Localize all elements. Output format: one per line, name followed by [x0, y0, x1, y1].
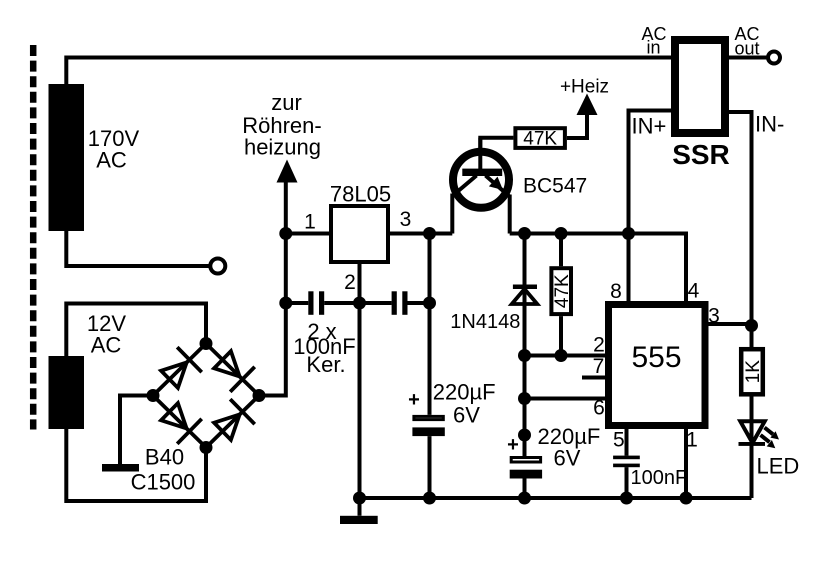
svg-text:+: +: [408, 389, 420, 411]
svg-text:3: 3: [400, 208, 412, 231]
svg-text:2: 2: [593, 334, 605, 357]
svg-text:6V: 6V: [554, 446, 581, 471]
svg-text:LED: LED: [757, 454, 800, 479]
svg-text:AC: AC: [91, 333, 122, 358]
svg-text:78L05: 78L05: [330, 182, 391, 207]
svg-text:6V: 6V: [453, 403, 480, 428]
svg-text:47K: 47K: [552, 274, 573, 308]
svg-text:6: 6: [593, 397, 605, 420]
svg-text:BC547: BC547: [523, 175, 587, 198]
svg-text:SSR: SSR: [672, 139, 730, 170]
svg-text:47K: 47K: [523, 129, 557, 150]
svg-text:4: 4: [688, 280, 700, 303]
svg-text:100nF: 100nF: [631, 467, 688, 489]
svg-text:5: 5: [613, 429, 625, 452]
svg-text:1N4148: 1N4148: [450, 311, 520, 333]
svg-text:out: out: [734, 39, 759, 59]
svg-text:1: 1: [686, 429, 698, 452]
svg-text:+: +: [507, 434, 519, 456]
svg-text:Ker.: Ker.: [306, 352, 345, 377]
svg-text:8: 8: [610, 280, 622, 303]
svg-text:+Heiz: +Heiz: [560, 77, 609, 98]
svg-text:AC: AC: [96, 148, 127, 173]
svg-text:2: 2: [344, 271, 356, 294]
svg-text:IN-: IN-: [755, 112, 784, 137]
svg-text:zur: zur: [271, 90, 302, 115]
svg-text:1: 1: [304, 211, 316, 234]
svg-text:1K: 1K: [743, 360, 764, 384]
svg-text:220µF: 220µF: [433, 380, 496, 405]
svg-text:in: in: [646, 38, 660, 58]
svg-text:heizung: heizung: [244, 135, 321, 160]
svg-text:3: 3: [708, 305, 720, 328]
svg-text:555: 555: [631, 341, 681, 374]
svg-text:IN+: IN+: [632, 114, 667, 139]
svg-text:B40: B40: [145, 445, 184, 470]
svg-text:C1500: C1500: [131, 470, 196, 495]
svg-text:7: 7: [593, 355, 605, 378]
